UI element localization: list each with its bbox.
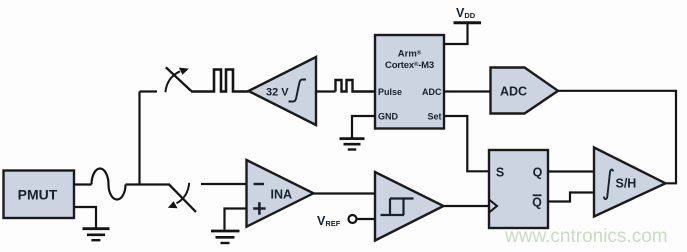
svg-text:Q: Q	[533, 166, 543, 180]
wire: PMUT bottom to ground	[74, 207, 96, 228]
svg-text:ADC: ADC	[422, 87, 442, 97]
ADC block	[491, 68, 559, 114]
svg-text:Cortex®-M3: Cortex®-M3	[385, 60, 434, 71]
acoustic wave symbol	[92, 169, 126, 200]
ground symbol (INA)	[211, 231, 240, 243]
VDD supply	[444, 6, 481, 44]
pulse waveform symbol (MCU output)	[336, 80, 376, 92]
ground symbol (MCU)	[340, 139, 365, 150]
svg-text:www.cntronics.com: www.cntronics.com	[504, 226, 668, 247]
wire: ADC pin to ADC block	[444, 90, 491, 92]
wire: ADC output to S/H	[558, 91, 676, 184]
wire: PMUT top output	[74, 183, 92, 185]
PMUT transducer block	[4, 171, 75, 219]
svg-text:PMUT: PMUT	[18, 187, 58, 203]
svg-text:S/H: S/H	[616, 177, 637, 191]
flip-flop (S / Q / Qbar)	[489, 150, 548, 228]
wire + TX pulse waveform symbol	[191, 70, 249, 92]
svg-text:Pulse: Pulse	[378, 87, 402, 97]
wire: junction up to TX switch	[138, 92, 140, 185]
wire: GND pin	[352, 116, 375, 138]
comparator with hysteresis	[375, 172, 444, 241]
wire: to TX switch left contact	[140, 90, 158, 92]
svg-text:GND: GND	[378, 112, 399, 122]
wire: amp to pulse pin	[316, 90, 336, 92]
MCU U1 Arm Cortex-M3	[375, 35, 444, 129]
sample-and-hold S/H block	[594, 148, 666, 217]
wire: wave symbol to RX switch	[126, 183, 169, 185]
wire: Set pin to flip-flop S input	[444, 116, 489, 171]
wire: comparator output to flip-flop clock	[444, 205, 490, 207]
svg-text:INA: INA	[271, 188, 293, 202]
svg-text:S: S	[496, 166, 504, 180]
wire: RX switch to INA - input	[201, 183, 247, 185]
svg-text:ADC: ADC	[500, 85, 527, 99]
ground symbol (PMUT)	[83, 229, 110, 241]
VREF input terminal	[317, 214, 375, 228]
wire: Qbar output to S/H	[548, 193, 595, 202]
driver amplifier 32V (points left)	[249, 57, 317, 125]
wire: INA output to comparator	[314, 192, 376, 194]
switch TX (top)	[165, 67, 191, 92]
svg-text:Set: Set	[427, 112, 441, 122]
wire: Q output to S/H	[548, 170, 595, 172]
switch RX (bottom)	[168, 183, 196, 212]
instrumentation amplifier INA	[247, 160, 314, 227]
wire: INA + input to ground	[225, 209, 247, 230]
svg-text:Q: Q	[532, 196, 542, 210]
svg-text:32 V: 32 V	[266, 87, 289, 99]
